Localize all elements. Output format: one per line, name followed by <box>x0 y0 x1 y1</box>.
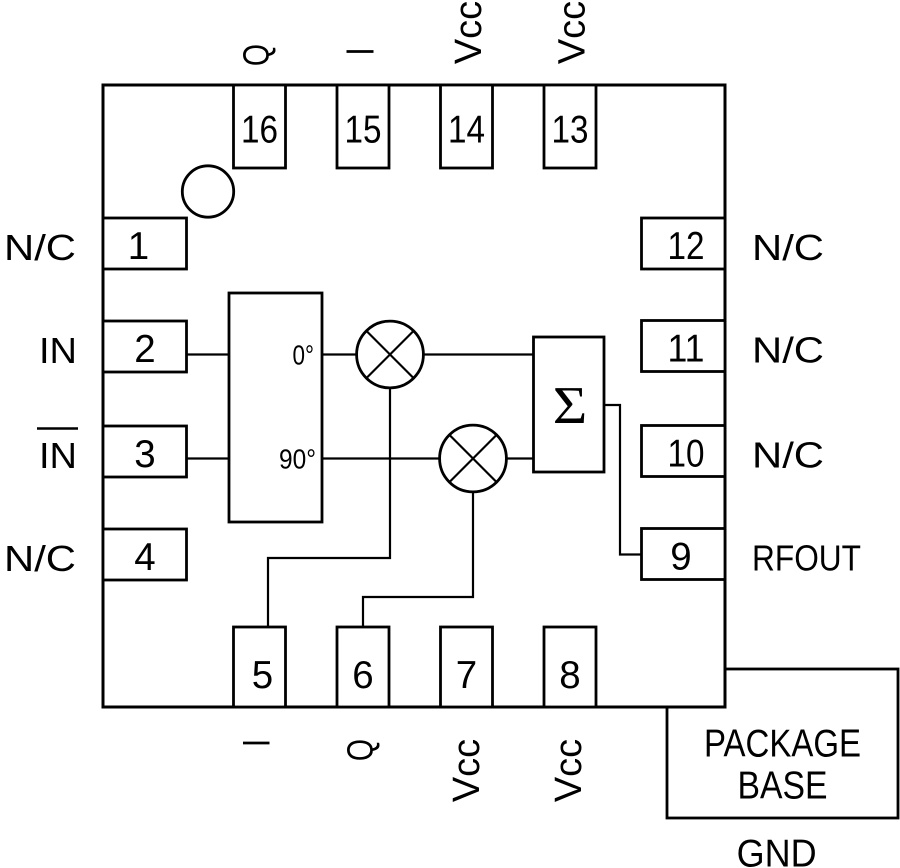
svg-text:IN: IN <box>39 330 77 371</box>
svg-text:1: 1 <box>128 225 149 268</box>
svg-text:16: 16 <box>241 109 278 152</box>
svg-text:Vcc: Vcc <box>552 1 594 64</box>
svg-text:RFOUT: RFOUT <box>752 538 861 579</box>
svg-text:14: 14 <box>448 109 485 152</box>
svg-text:3: 3 <box>134 433 155 476</box>
svg-text:IN: IN <box>39 435 77 476</box>
svg-text:N/C: N/C <box>4 538 76 579</box>
svg-text:BASE: BASE <box>738 764 828 807</box>
svg-text:N/C: N/C <box>752 435 824 476</box>
svg-text:8: 8 <box>559 654 580 697</box>
svg-text:11: 11 <box>668 328 705 371</box>
svg-text:7: 7 <box>456 654 477 697</box>
svg-text:Q: Q <box>235 44 276 66</box>
svg-text:13: 13 <box>552 109 589 152</box>
svg-text:5: 5 <box>252 654 273 697</box>
svg-text:Vcc: Vcc <box>448 1 490 64</box>
svg-text:Σ: Σ <box>553 377 588 435</box>
svg-text:9: 9 <box>670 536 691 579</box>
svg-text:0°: 0° <box>293 340 315 371</box>
svg-text:12: 12 <box>668 225 705 268</box>
svg-text:Vcc: Vcc <box>548 739 590 802</box>
svg-text:N/C: N/C <box>4 227 76 268</box>
svg-text:6: 6 <box>352 654 373 697</box>
svg-text:15: 15 <box>345 109 382 152</box>
svg-text:Vcc: Vcc <box>446 739 488 802</box>
svg-text:PACKAGE: PACKAGE <box>704 723 861 766</box>
svg-text:N/C: N/C <box>752 227 824 268</box>
svg-text:N/C: N/C <box>752 330 824 371</box>
svg-text:Q: Q <box>339 739 380 761</box>
svg-text:4: 4 <box>134 536 155 579</box>
svg-text:2: 2 <box>134 328 155 371</box>
svg-text:10: 10 <box>668 433 705 476</box>
svg-text:GND: GND <box>737 833 817 868</box>
svg-text:90°: 90° <box>279 444 316 475</box>
